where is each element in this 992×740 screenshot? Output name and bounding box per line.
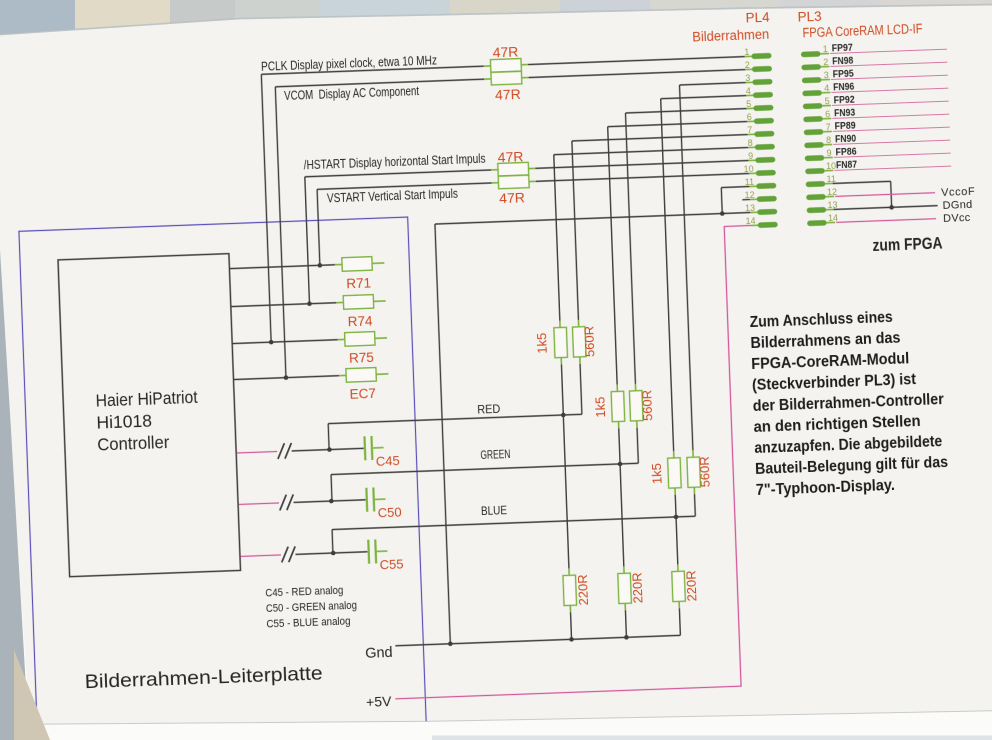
svg-text:9: 9 [826, 148, 831, 158]
wire GREEN to C50 [294, 500, 366, 503]
connector PL4 pad pin 6 [747, 120, 755, 122]
wire PL3 pin14 (net DVcc) [836, 219, 936, 223]
node junction RED/1k5/220R [561, 413, 566, 418]
wire 220R (BLUE) to Gnd [678, 608, 681, 635]
connector PL3 pad pin 14 [807, 220, 827, 226]
svg-text:C50: C50 [378, 504, 402, 520]
svg-text:3: 3 [824, 70, 829, 80]
wire +5V rail to PL4 pin14 (pink) [378, 225, 768, 698]
wire PL4 pin12 stub [742, 198, 750, 200]
svg-text:12: 12 [827, 187, 837, 197]
svg-text:DGnd: DGnd [942, 199, 972, 212]
node junction BLUE/1k5/220R [674, 515, 679, 520]
svg-text:14: 14 [828, 213, 838, 223]
svg-text:1k5: 1k5 [534, 332, 550, 354]
svg-text:11: 11 [826, 174, 836, 184]
wire PL4 pin3 to column [680, 83, 746, 85]
svg-text:4: 4 [746, 86, 751, 96]
wire HSTART vertical drop [305, 177, 310, 304]
svg-text:Haier HiPatriot: Haier HiPatriot [95, 387, 198, 411]
svg-text:47R: 47R [495, 86, 521, 103]
wire RED to 220R [563, 415, 569, 568]
wire PL3 pin10 (net FN87) [834, 166, 951, 170]
wire PL4 pin5 to column [625, 109, 746, 113]
svg-text:1k5: 1k5 [649, 463, 665, 485]
controller U1 Haier HiPatriot Hi1018 box [58, 254, 241, 577]
node junction Gnd/220R GREEN [624, 635, 629, 640]
svg-text:9: 9 [748, 151, 753, 161]
wire RED to C45 [292, 448, 364, 451]
svg-text:10: 10 [826, 161, 836, 171]
svg-text:6: 6 [825, 109, 830, 119]
wire BLUE line [332, 516, 695, 529]
resistor R71 body [335, 263, 342, 265]
wire HSTART horizontal [305, 170, 491, 177]
svg-text:Hi1018: Hi1018 [96, 411, 152, 433]
wire BLUE to 220R [676, 517, 678, 564]
wire PL4 pin8 to column [554, 148, 749, 155]
connector PL4 pad pin 14 [751, 224, 759, 226]
svg-text:BLUE: BLUE [481, 503, 507, 518]
resistor 47R (VSTART) body [491, 182, 498, 184]
svg-text:11: 11 [745, 177, 755, 187]
wire VCOM vertical drop [275, 87, 286, 378]
wire PL4 pin13 (DGnd) [435, 212, 751, 224]
wire GREEN to 220R [620, 464, 624, 566]
node junction PL3 pin11/pin13 [889, 205, 894, 210]
resistor 47R (HSTART) body [491, 169, 498, 171]
wire PL3 pin7 (net FP89) [833, 127, 950, 131]
svg-text:47R: 47R [492, 43, 518, 60]
wire controller to EC7 [234, 376, 340, 380]
node junction Gnd/DGnd vertical [448, 641, 453, 646]
wire BLUE to C55 [295, 552, 367, 555]
wire PL3 pin4 (net FN96) [831, 88, 948, 92]
svg-text:560R: 560R [581, 326, 597, 358]
svg-text:C45: C45 [376, 453, 400, 469]
connector PL4 pad pin 7 [747, 133, 755, 135]
connector PL4 pad pin 12 [750, 198, 758, 200]
svg-text:+5V: +5V [366, 693, 393, 710]
resistor 1k5 (RED) body [559, 321, 561, 328]
wire PL3 pin6 (net FN93) [832, 114, 949, 118]
connector PL3 pad pin 9 [805, 155, 825, 161]
wire controller GREEN stub (pink) [239, 503, 279, 504]
svg-text:PL4: PL4 [745, 10, 770, 26]
svg-text:1: 1 [823, 44, 828, 54]
resistor 560R (GREEN) body [634, 384, 636, 391]
connector PL4 pad pin 13 [750, 211, 758, 213]
connector PL3 pad pin 2 [801, 64, 821, 70]
wire controller BLUE stub (pink) [240, 555, 280, 556]
resistor 220R (BLUE) body [677, 564, 679, 571]
wire PCLK to PL4 pin1 [528, 57, 745, 65]
svg-text:GREEN: GREEN [480, 447, 510, 462]
resistor EC7 body [339, 374, 346, 376]
wire PCLK vertical drop [261, 74, 271, 342]
svg-text:5: 5 [825, 96, 830, 106]
capacitor C45 body [363, 436, 366, 460]
wire PL3 pin8 (net FN90) [833, 140, 950, 144]
connector PL4 pad pin 5 [746, 107, 754, 109]
connector PL3 pad pin 12 [806, 194, 826, 200]
svg-text:10: 10 [743, 164, 753, 174]
svg-text:13: 13 [745, 203, 755, 213]
connector PL4 pad pin 4 [746, 94, 754, 96]
svg-text:2: 2 [745, 60, 750, 70]
svg-text:Gnd: Gnd [365, 645, 393, 662]
svg-text:13: 13 [827, 200, 837, 210]
svg-text:R75: R75 [349, 350, 374, 366]
node junction HSTART/R74 [307, 301, 312, 306]
wire PCLK horizontal [261, 66, 483, 74]
capacitor C50 body [365, 488, 368, 512]
wire VSTART horizontal [317, 183, 491, 189]
wire 220R (RED) to Gnd [570, 612, 573, 639]
wire 1k5 (GREEN) bottom [619, 428, 620, 463]
svg-text:zum FPGA: zum FPGA [872, 233, 943, 255]
node junction VSTART/R71 [317, 263, 322, 268]
node junction PL4 pin11/pin13 [720, 211, 725, 216]
svg-text:7: 7 [825, 122, 830, 132]
svg-text:14: 14 [745, 216, 755, 226]
svg-text:4: 4 [824, 83, 829, 93]
wire PL3 pin11 join [833, 181, 891, 183]
svg-text:8: 8 [826, 135, 831, 145]
connector PL3 pad pin 5 [803, 103, 823, 109]
svg-text:3: 3 [745, 73, 750, 83]
resistor 47R (PCLK) body [484, 65, 491, 67]
connector PL3 pad pin 6 [803, 116, 823, 122]
wire VCOM horizontal [275, 79, 484, 87]
connector PL3 pad pin 10 [805, 168, 825, 174]
connector PL3 pad pin 7 [804, 129, 824, 135]
resistor 47R (VCOM) body [484, 78, 491, 80]
wire controller to R74 [231, 303, 337, 307]
Bilderrahmen-Leiterplatte board outline (blue box) [19, 217, 427, 740]
wire PL3 pin13 (net DGnd) [834, 206, 938, 210]
wire DGnd vertical [435, 224, 450, 644]
resistor 220R (GREEN) body [623, 566, 625, 573]
node junction Gnd/220R RED [569, 637, 574, 642]
connector PL4 pad pin 10 [749, 172, 757, 174]
wire GREEN line [331, 463, 638, 474]
connector PL4 pad pin 8 [748, 146, 756, 148]
wire PL3 pin2 (net FN98) [830, 62, 947, 66]
wire HSTART to PL4 pin9 [535, 161, 748, 169]
svg-text:R71: R71 [346, 275, 371, 291]
wire VSTART to PL4 pin10 [536, 174, 749, 182]
wire 560R (BLUE) bottom [694, 494, 697, 516]
node junction GREEN/1k5/220R [618, 462, 623, 467]
node junction GREEN/C50 [329, 499, 334, 504]
svg-text:220R: 220R [630, 572, 646, 604]
svg-text:12: 12 [744, 190, 754, 200]
svg-text:Bilderrahmen: Bilderrahmen [692, 27, 769, 45]
svg-text:VccoF: VccoF [941, 186, 976, 199]
svg-text:RED: RED [477, 402, 501, 417]
connector PL4 pad pin 11 [749, 185, 757, 187]
wire PL3 pin12 (net VccoF) [835, 193, 935, 197]
wire RED line [328, 414, 582, 423]
wire PL4 pin6 to column [608, 122, 748, 127]
svg-text:1k5: 1k5 [592, 396, 608, 418]
svg-text:DVcc: DVcc [943, 212, 971, 225]
node junction VCOM/EC7 [284, 375, 289, 380]
wire VCOM to PL4 pin2 [529, 70, 746, 78]
node junction RED/C45 [327, 447, 332, 452]
wire PL4 pin4 to column [661, 96, 747, 99]
connector PL3 pad pin 11 [806, 181, 826, 187]
svg-text:PL3: PL3 [797, 9, 822, 25]
resistor 560R (RED) body [577, 320, 579, 327]
connector PL4 pad pin 2 [745, 68, 753, 70]
wire 560R (RED) bottom [580, 364, 582, 414]
wire break symbol (C45) [277, 443, 285, 459]
svg-text:220R: 220R [575, 574, 591, 606]
wire PL4 pin7 to column [572, 135, 748, 141]
wire PL4 pin11 join [721, 186, 749, 187]
wire 1k5 (BLUE) bottom [674, 495, 677, 517]
connector PL3 pad pin 3 [802, 77, 822, 83]
svg-text:2: 2 [823, 57, 828, 67]
resistor 1k5 (BLUE) body [673, 451, 675, 458]
wire PL3 pin5 (net FP92) [832, 101, 949, 105]
wire break symbol (C55) [281, 547, 289, 563]
svg-text:R74: R74 [347, 313, 373, 329]
svg-text:1: 1 [744, 47, 749, 57]
resistor 220R (RED) body [568, 568, 570, 575]
svg-text:47R: 47R [499, 189, 525, 206]
wire PL3 pin3 (net FP95) [831, 75, 948, 79]
svg-text:EC7: EC7 [349, 386, 376, 402]
wire controller to R75 [232, 340, 338, 344]
svg-text:C55: C55 [379, 556, 403, 572]
wire controller RED stub (pink) [237, 451, 277, 452]
wire 220R (GREEN) to Gnd [624, 610, 627, 637]
connector PL3 pad pin 4 [802, 90, 822, 96]
connector PL4 pad pin 3 [745, 81, 753, 83]
connector PL4 pad pin 9 [748, 159, 756, 161]
wire 560R (GREEN) bottom [637, 428, 638, 463]
node junction BLUE/C55 [331, 551, 336, 556]
connector PL4 pad pin 1 [745, 55, 753, 57]
svg-text:8: 8 [747, 138, 752, 148]
node junction PCLK/R75 [269, 340, 274, 345]
svg-text:220R: 220R [684, 570, 700, 602]
connector PL3 pad pin 8 [804, 142, 824, 148]
resistor R75 body [338, 338, 345, 340]
svg-text:5: 5 [746, 99, 751, 109]
wire VSTART vertical drop [317, 189, 320, 265]
wire 1k5 (RED) bottom [561, 365, 563, 415]
resistor 560R (BLUE) body [692, 450, 694, 457]
wire controller to R71 [229, 265, 335, 269]
wire break symbol (C50) [279, 495, 287, 511]
resistor 1k5 (GREEN) body [616, 384, 618, 391]
connector PL3 pad pin 13 [807, 207, 827, 213]
svg-text:7: 7 [747, 125, 752, 135]
svg-text:Controller: Controller [97, 432, 170, 455]
svg-text:6: 6 [747, 112, 752, 122]
connector PL3 pad pin 1 [801, 51, 821, 57]
resistor R74 body [336, 301, 343, 303]
wire PL3 pin9 (net FP86) [834, 153, 951, 157]
capacitor C55 body [367, 540, 370, 564]
svg-text:560R: 560R [639, 390, 655, 422]
svg-text:560R: 560R [697, 456, 713, 488]
wire Gnd rail [395, 635, 680, 645]
wire PL3 pin1 (net FP97) [830, 49, 947, 53]
